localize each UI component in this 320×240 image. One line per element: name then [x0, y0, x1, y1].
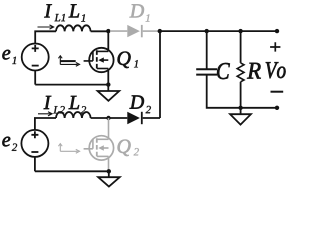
e1 minus sign — [32, 65, 39, 67]
node C top — [205, 29, 209, 33]
wire C upper lead — [206, 31, 208, 69]
inductor L2 — [56, 112, 91, 118]
wire L2 to node C — [91, 117, 128, 119]
wire Q1 drain — [107, 31, 109, 51]
diode D1 (gray, inactive) — [127, 25, 142, 37]
wire R lower lead — [240, 82, 242, 108]
wire e1 bottom — [34, 71, 36, 85]
wire bottom rail circuit 1 — [35, 84, 108, 86]
ground circuit 1 — [98, 85, 120, 101]
ground output — [230, 108, 251, 125]
wire gray D1 to node B — [143, 30, 159, 32]
wire output top rail — [160, 30, 277, 32]
label Q2 — [118, 140, 131, 156]
transistor Q2 (gray, inactive) — [84, 136, 114, 160]
wire e2 bottom — [34, 157, 36, 171]
node R top — [238, 29, 242, 33]
wire top-left corner e1 to L1 — [35, 31, 56, 43]
wire Q2 source (gray) — [108, 156, 110, 170]
node A (L1/Q1/D1 junction) — [106, 29, 110, 33]
label D2 — [130, 96, 144, 109]
label I_L2 — [44, 96, 52, 109]
node output + terminal — [275, 29, 279, 33]
node Q2 source / ground junction — [107, 169, 111, 173]
label e2 — [2, 137, 10, 147]
transistor Q1 — [84, 48, 114, 72]
wire C lower lead — [207, 75, 277, 108]
wire output riser D2 to top rail — [159, 31, 161, 118]
gate drive arrow Q1 — [58, 56, 79, 67]
wire top-left corner e2 to L2 — [35, 118, 56, 130]
label D1 — [130, 4, 144, 17]
label output plus — [270, 42, 280, 51]
diode D2 — [127, 112, 142, 124]
label e1 — [2, 50, 10, 60]
capacitor C — [196, 69, 217, 74]
label R — [247, 63, 261, 79]
wire Q2 drain (gray) — [108, 118, 110, 139]
inductor L1 — [56, 25, 91, 31]
label I_L1 — [44, 4, 52, 17]
node Q1 source / ground junction — [106, 82, 110, 86]
node R bottom / ground junction — [238, 106, 242, 110]
wire gray node A to D1 — [110, 30, 127, 32]
e2 minus sign — [31, 151, 38, 153]
e2 plus sign — [31, 131, 38, 138]
label Vo — [266, 62, 286, 78]
node C (L2/Q2/D2 junction) — [106, 116, 110, 120]
voltage source e2 — [21, 130, 48, 157]
voltage source e1 — [22, 44, 49, 71]
wire bottom rail circuit 2 — [35, 170, 109, 172]
wire Q1 source — [107, 69, 109, 85]
label Q1 — [118, 52, 131, 68]
node output - terminal — [275, 106, 279, 110]
node B (D1 cathode / output) — [158, 29, 162, 33]
current arrow I_L2 — [38, 112, 52, 116]
ground circuit 2 — [98, 171, 120, 186]
e1 plus sign — [32, 45, 39, 52]
label C — [217, 63, 230, 79]
label output minus — [271, 91, 284, 93]
current arrow I_L1 — [38, 25, 54, 29]
label L1 — [69, 4, 79, 17]
label L2 — [69, 96, 79, 109]
wire R upper lead — [240, 31, 242, 63]
resistor R — [237, 63, 244, 82]
gate drive arrow Q2 (gray) — [58, 144, 79, 154]
wire D2 to output riser — [143, 117, 160, 119]
wire L1 to node A — [91, 30, 109, 32]
